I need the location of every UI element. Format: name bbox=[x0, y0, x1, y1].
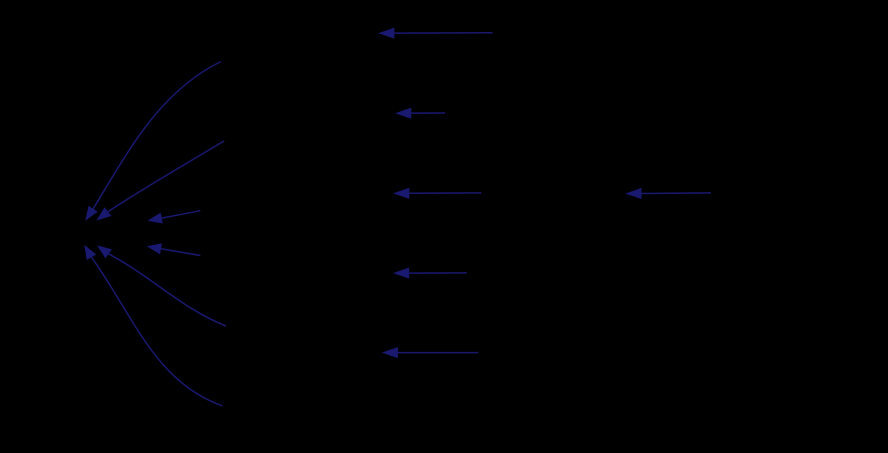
edge arrow B1 (upper short into left node) bbox=[148, 211, 201, 224]
edge curve C3 (lower-mid col2 -> left node) bbox=[97, 245, 226, 326]
edge arrow A1 (col3 -> col2 row1) bbox=[378, 28, 492, 39]
edge arrow A6 (col4 -> col3) bbox=[625, 188, 711, 199]
edge arrow A3 (col3 -> col2 row3) bbox=[393, 188, 481, 199]
edge arrow A4 (col3 -> col2 row4) bbox=[393, 268, 467, 279]
edge curve C2 (upper-mid col2 -> left node) bbox=[97, 141, 225, 221]
edge arrow B2 (lower short into left node) bbox=[147, 243, 201, 255]
edge arrow A2 (col3 -> col2 row2) bbox=[395, 108, 445, 119]
edge curve C4 (bottom col2 -> left node) bbox=[84, 245, 222, 406]
edge arrow A5 (col3 -> col2 row5) bbox=[382, 347, 479, 358]
edge curve C1 (top col2 -> left node) bbox=[85, 62, 221, 221]
